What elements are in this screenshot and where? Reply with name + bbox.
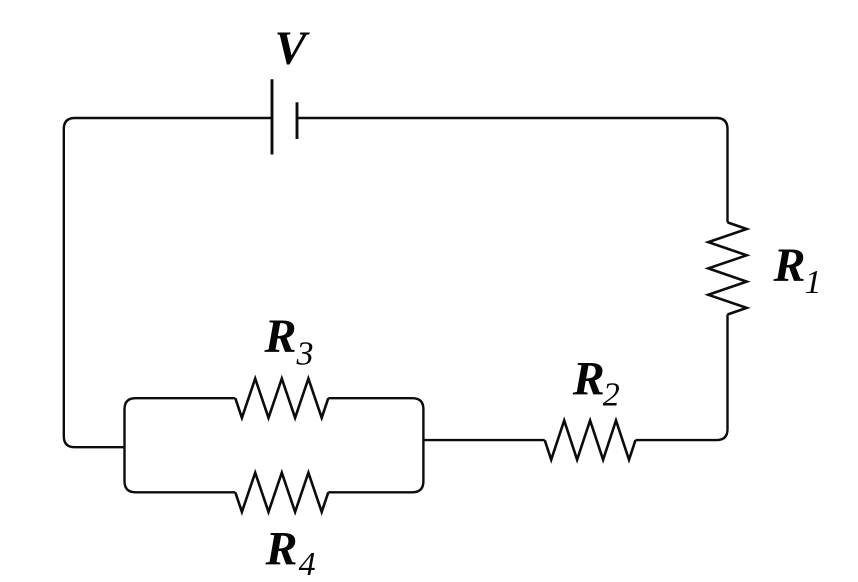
svg-text:R: R [264,310,297,363]
svg-text:2: 2 [603,377,620,414]
svg-text:R: R [572,352,605,405]
svg-text:V: V [275,22,311,75]
svg-text:1: 1 [805,264,822,301]
svg-text:4: 4 [299,546,316,582]
svg-text:R: R [773,239,806,292]
svg-text:3: 3 [296,336,314,373]
svg-text:R: R [265,522,298,575]
